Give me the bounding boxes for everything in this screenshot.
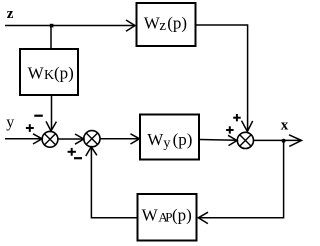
svg-text:(p): (p) xyxy=(54,64,74,83)
wire z input to Wz xyxy=(5,25,135,27)
junction dot on z line xyxy=(50,24,54,28)
arrowhead x output xyxy=(289,135,302,147)
svg-text:z: z xyxy=(159,18,166,34)
minus sign at sum1 top input xyxy=(34,115,43,117)
arrowhead into sum3 left xyxy=(228,135,237,145)
plus sign at sum2 left input xyxy=(68,148,76,156)
wire y input to sum1 xyxy=(5,138,42,140)
block Wz(p) xyxy=(137,3,196,46)
wire sum3 to x output xyxy=(254,139,301,141)
summing junction sum3 xyxy=(237,132,253,148)
arrowhead into sum2 left xyxy=(75,134,84,144)
minus sign at sum2 bottom input xyxy=(74,157,82,159)
arrowhead into sum1 top xyxy=(46,121,56,131)
summing junction sum1 xyxy=(42,131,58,147)
summing junction sum2 xyxy=(84,131,100,147)
svg-text:W: W xyxy=(28,64,45,83)
wire sum1 to sum2 xyxy=(58,138,84,140)
svg-text:z: z xyxy=(7,6,14,22)
wire Wap output left then up to sum2 xyxy=(91,148,136,218)
wire junction down to Wk top xyxy=(50,26,52,49)
svg-text:W: W xyxy=(142,206,159,225)
svg-text:(p): (p) xyxy=(167,13,187,32)
svg-text:x: x xyxy=(281,117,289,133)
arrowhead into sum1 left xyxy=(33,134,42,144)
arrowhead into Wy xyxy=(131,134,140,144)
arrowhead into Wap right xyxy=(198,212,208,223)
svg-text:(p): (p) xyxy=(173,130,193,149)
wire Wk output down to sum1 xyxy=(51,96,53,130)
block Wap(p) xyxy=(138,194,197,241)
svg-text:W: W xyxy=(147,130,164,149)
block Wy(p) xyxy=(140,115,199,160)
block Wk(p) xyxy=(20,49,78,95)
arrowhead into Wz xyxy=(126,20,135,31)
wire Wy to sum3 xyxy=(200,139,237,142)
plus sign at sum3 top input xyxy=(233,114,241,121)
arrowhead into sum3 top xyxy=(242,121,253,132)
wire feedback down from x junction xyxy=(199,141,284,218)
svg-text:K: K xyxy=(44,68,54,83)
wire sum2 to Wy xyxy=(100,138,139,140)
plus sign at sum1 left input xyxy=(26,124,34,132)
arrowhead into sum2 bottom xyxy=(86,147,97,156)
svg-text:y: y xyxy=(6,114,14,131)
plus sign at sum3 left input xyxy=(226,126,234,133)
svg-text:(p): (p) xyxy=(172,206,192,225)
svg-text:W: W xyxy=(144,13,161,32)
junction dot on x line xyxy=(282,139,286,143)
wire Wz output right then down to sum3 xyxy=(197,25,248,130)
svg-text:y: y xyxy=(163,136,170,151)
